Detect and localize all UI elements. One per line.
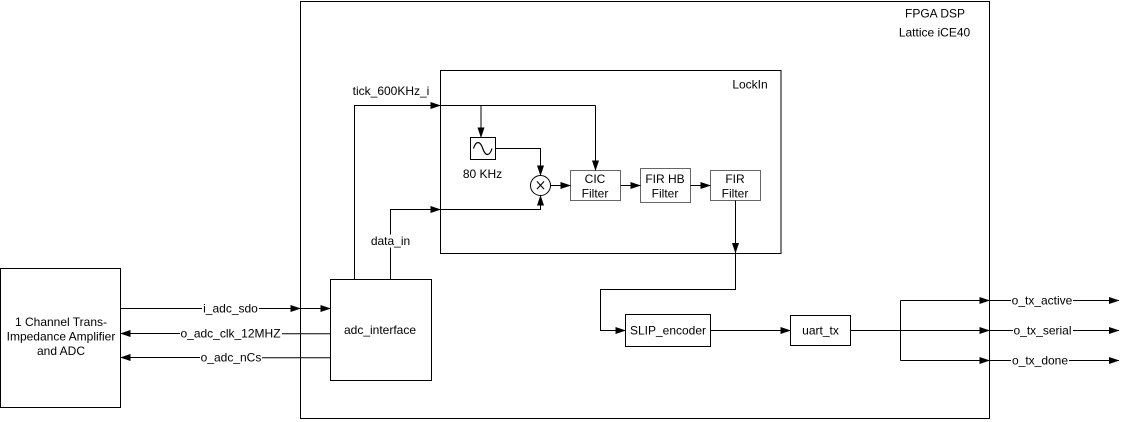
svg-text:o_tx_done: o_tx_done <box>1012 354 1068 368</box>
svg-text:Lattice iCE40: Lattice iCE40 <box>899 26 971 40</box>
svg-text:tick_600KHz_i: tick_600KHz_i <box>353 84 430 98</box>
svg-text:o_tx_serial: o_tx_serial <box>1013 324 1071 338</box>
svg-text:Filter: Filter <box>582 187 609 201</box>
svg-text:CIC: CIC <box>585 172 606 186</box>
svg-text:Filter: Filter <box>722 187 749 201</box>
svg-text:Impedance Amplifier: Impedance Amplifier <box>7 330 116 344</box>
svg-text:SLIP_encoder: SLIP_encoder <box>630 324 706 338</box>
svg-text:o_tx_active: o_tx_active <box>1012 294 1073 308</box>
svg-text:data_in: data_in <box>371 234 410 248</box>
svg-text:uart_tx: uart_tx <box>802 324 839 338</box>
svg-text:o_adc_nCs: o_adc_nCs <box>201 351 262 365</box>
svg-text:adc_interface: adc_interface <box>344 323 416 337</box>
svg-text:LockIn: LockIn <box>732 78 767 92</box>
svg-text:FIR: FIR <box>725 172 745 186</box>
svg-text:and ADC: and ADC <box>37 344 85 358</box>
svg-text:1 Channel Trans-: 1 Channel Trans- <box>15 315 107 329</box>
svg-text:Filter: Filter <box>652 187 679 201</box>
svg-text:FPGA DSP: FPGA DSP <box>905 7 965 21</box>
svg-text:i_adc_sdo: i_adc_sdo <box>203 302 258 316</box>
svg-text:o_adc_clk_12MHZ: o_adc_clk_12MHZ <box>180 327 280 341</box>
svg-text:80 KHz: 80 KHz <box>463 167 502 181</box>
svg-text:FIR HB: FIR HB <box>645 172 684 186</box>
